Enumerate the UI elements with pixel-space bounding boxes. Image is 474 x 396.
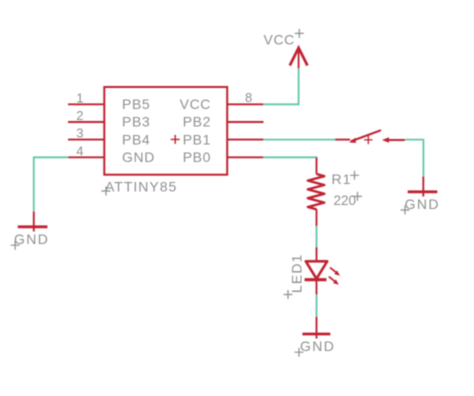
LED1 cathode pin [316,280,318,295]
switch S1 right pin [388,139,406,141]
resistor R1 zigzag [308,174,325,209]
origin cross at right GND [401,206,410,215]
pin 1 line [68,103,104,105]
IC U1 ATTINY85 box [104,87,227,175]
origin cross at bottom GND [295,348,304,357]
pin 7 line (PB2) [227,121,263,123]
wire net from PB1 to switch [264,139,337,141]
svg-text:8: 8 [245,90,252,105]
wire net from PB0 to resistor [264,157,317,158]
supply symbol VCC pin stub [298,49,300,69]
right GND bar [408,190,438,193]
pin 2 line [68,121,104,123]
switch S1 left pin [335,139,350,141]
bottom GND bar [302,333,330,336]
svg-text:GND: GND [405,196,440,212]
wire net LED to bottom GND [316,295,318,318]
wire net from switch to right GND [405,140,423,177]
pin 5 line (PB0) [227,156,263,158]
origin cross of IC (red) [171,135,180,144]
LED1 anode pin [316,247,318,261]
pin 6 line (PB1) [227,139,263,141]
origin cross at left GND [11,241,20,250]
resistor R1 bottom pin [316,209,318,227]
LED1 light arrow 2 [329,277,336,282]
svg-text:220: 220 [334,193,357,208]
svg-text:ATTINY85: ATTINY85 [105,179,177,195]
svg-text:R1: R1 [332,171,352,187]
svg-text:GND: GND [122,149,155,165]
LED1 light arrow 1 [330,268,337,273]
switch S1 left arrowhead [349,138,356,143]
pin 8 line [227,103,263,105]
svg-text:PB0: PB0 [183,149,211,165]
svg-text:PB5: PB5 [122,96,150,112]
switch S1 lever [351,130,381,141]
svg-text:PB1: PB1 [183,131,211,147]
svg-text:PB2: PB2 [183,114,211,130]
origin cross at 220 [353,192,362,201]
switch S1 origin cross (red) [364,136,372,144]
origin cross at ATTINY85 [102,187,111,196]
wire net resistor to LED [316,226,318,248]
bottom GND pin stub [316,317,318,339]
LED1 triangle [306,261,327,279]
resistor R1 top pin [316,157,318,174]
svg-text:PB4: PB4 [122,131,150,147]
left GND pin stub [33,211,35,231]
pin 4 line [68,156,104,158]
supply symbol VCC arrow [290,48,308,66]
origin cross at VCC label [295,29,304,38]
svg-text:4: 4 [76,143,83,158]
svg-text:3: 3 [76,126,83,141]
right GND pin stub [422,176,424,196]
svg-text:LED1: LED1 [289,254,305,293]
svg-text:1: 1 [76,90,83,105]
svg-text:2: 2 [76,108,83,123]
wire net VCC from pin 8 [264,68,299,105]
origin cross at R1 [350,171,359,180]
svg-text:VCC: VCC [264,31,295,47]
LED1 cathode bar [305,278,327,281]
left GND bar [18,225,48,228]
svg-text:VCC: VCC [180,96,211,112]
wire net pin4 to left GND [34,157,68,211]
pin 3 line [68,139,104,141]
switch S1 right arrowhead [382,137,389,143]
origin cross at LED1 [284,290,293,299]
svg-text:PB3: PB3 [122,114,150,130]
svg-text:GND: GND [300,338,335,354]
